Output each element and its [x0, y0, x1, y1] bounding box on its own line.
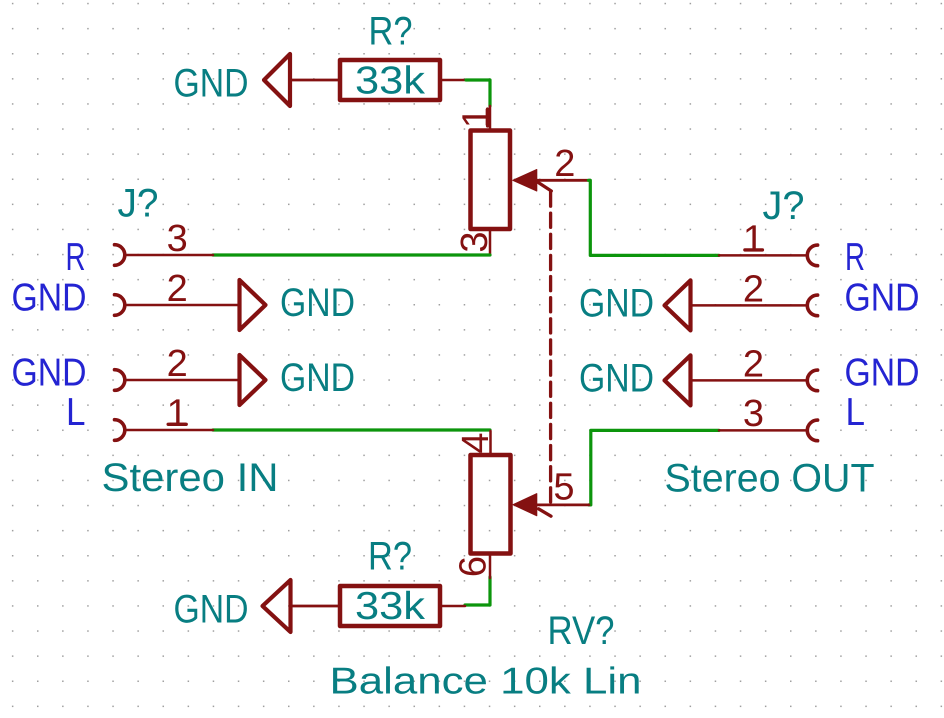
svg-text:J?: J?: [763, 184, 805, 228]
connector J1 pin 3 contact arc: [115, 245, 125, 266]
potentiometer RV1 section A wiper arrow: [513, 170, 537, 192]
svg-text:GND: GND: [174, 588, 249, 632]
svg-text:6: 6: [453, 556, 495, 577]
connector J2 pin 2b lead: [691, 379, 807, 382]
svg-text:L: L: [66, 391, 86, 434]
svg-text:GND: GND: [280, 281, 355, 325]
mechanical link diagonal top: [538, 182, 551, 191]
ground symbol J1 row 2: [240, 280, 266, 330]
svg-text:GND: GND: [12, 352, 87, 395]
connector J1 pin 1 contact arc: [115, 420, 125, 441]
svg-text:GND: GND: [174, 62, 249, 106]
svg-text:33k: 33k: [355, 60, 426, 103]
ground symbol J2 row 2: [665, 280, 691, 330]
resistor R1 right pin: [442, 79, 466, 82]
ground symbol J1 row 3: [240, 355, 266, 405]
svg-text:Balance 10k Lin: Balance 10k Lin: [330, 659, 642, 701]
ground symbol top: [264, 54, 290, 106]
potentiometer RV1 section A body: [471, 131, 511, 230]
connector J1 pin 2b contact arc: [115, 370, 125, 391]
connector J2 pin 2 contact arc: [807, 295, 817, 316]
ground symbol bottom: [263, 580, 291, 632]
svg-text:GND: GND: [579, 281, 654, 325]
wire potentiometer RV1 pin 6 to resistor R2: [465, 577, 490, 605]
svg-text:1: 1: [743, 218, 764, 260]
connector J1 pin 1 lead: [126, 429, 214, 432]
svg-text:L: L: [846, 391, 866, 434]
potentiometer RV1 section A pin 1: [489, 106, 492, 131]
potentiometer RV1 section A pin 3: [489, 229, 492, 255]
svg-text:1: 1: [167, 393, 188, 435]
svg-text:33k: 33k: [355, 585, 426, 628]
svg-text:GND: GND: [845, 277, 920, 320]
svg-text:GND: GND: [12, 277, 87, 320]
pin number 1 (rotated): [456, 107, 498, 128]
svg-text:GND: GND: [579, 356, 654, 400]
potentiometer RV1 section B pin 6: [489, 554, 492, 579]
svg-text:5: 5: [553, 466, 574, 508]
connector J2 pin 2b contact arc: [807, 370, 817, 391]
svg-text:2: 2: [743, 343, 764, 385]
connector J1 pin 2 contact arc: [115, 295, 125, 316]
svg-text:3: 3: [167, 218, 188, 260]
connector J2 pin 2 lead: [691, 304, 807, 307]
wire connector J1 pin 3 to potentiometer RV1 pin 3: [213, 253, 490, 256]
svg-text:GND: GND: [280, 356, 355, 400]
svg-text:R: R: [845, 236, 865, 279]
potentiometer RV1 section B body: [471, 455, 511, 554]
connector J2 pin 1 lead: [719, 254, 806, 257]
wire resistor R1 to potentiometer RV1 pin 1: [466, 80, 490, 106]
connector J2 pin 1 contact arc: [807, 245, 817, 266]
resistor R1 left pin: [290, 79, 338, 82]
resistor R2 body: [340, 586, 440, 626]
connector J1 pin 3 lead: [126, 254, 214, 257]
svg-text:3: 3: [743, 393, 764, 435]
svg-text:Stereo IN: Stereo IN: [102, 456, 279, 500]
svg-text:2: 2: [554, 143, 575, 185]
pin number 6 (rotated): [453, 556, 495, 577]
connector J1 pin 2b lead: [126, 379, 240, 382]
wire connector J1 pin 1 to potentiometer RV1 pin 4: [213, 428, 490, 431]
potentiometer RV1 section B pin 4: [489, 431, 492, 455]
connector J1 pin 2 lead: [126, 304, 240, 307]
svg-text:1: 1: [456, 107, 498, 128]
potentiometer RV1 section A wiper lead pin 2: [537, 179, 589, 182]
resistor R1 body: [340, 60, 440, 100]
svg-text:3: 3: [454, 231, 496, 252]
svg-text:Stereo OUT: Stereo OUT: [665, 457, 875, 501]
pin number 4 (rotated): [455, 432, 497, 453]
mechanical link diagonal bottom: [539, 509, 552, 516]
svg-text:R?: R?: [369, 9, 413, 53]
svg-text:RV?: RV?: [548, 609, 615, 653]
svg-text:4: 4: [455, 432, 497, 453]
resistor R2 left pin: [291, 605, 339, 608]
svg-text:R?: R?: [368, 534, 412, 578]
svg-text:2: 2: [743, 268, 764, 310]
svg-text:R: R: [66, 236, 86, 279]
svg-text:2: 2: [167, 268, 188, 310]
wire connector J2 pin 3 to potentiometer RV1 pin 5: [589, 430, 719, 505]
resistor R2 right pin: [442, 605, 465, 608]
potentiometer RV1 section B wiper arrow: [513, 494, 537, 516]
svg-text:J?: J?: [118, 182, 159, 226]
wire potentiometer RV1 pin 2 to connector J2 pin 1: [589, 180, 720, 255]
connector J2 pin 3 contact arc: [807, 420, 817, 441]
potentiometer RV1 section B wiper lead pin 5: [537, 503, 589, 506]
svg-text:2: 2: [167, 343, 188, 385]
pin number 3 (rotated): [454, 231, 496, 252]
mechanical link dashed line: [549, 192, 552, 502]
ground symbol J2 row 3: [665, 355, 691, 405]
svg-text:GND: GND: [845, 352, 920, 395]
connector J2 pin 3 lead: [719, 429, 806, 432]
